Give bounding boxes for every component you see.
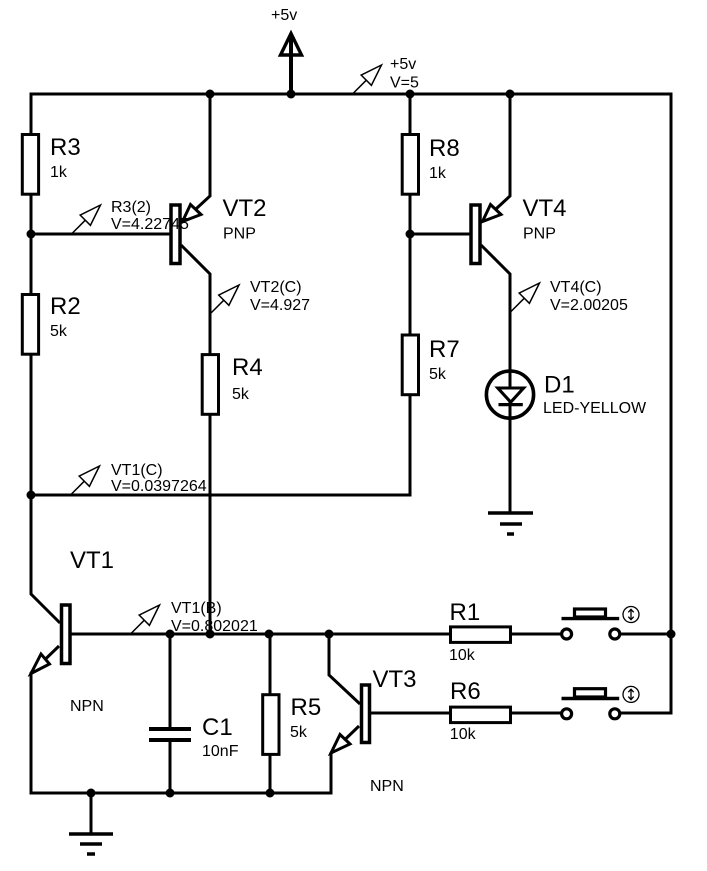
- wire R1 to switch SW1: [511, 633, 562, 636]
- svg-text:VT1(C): VT1(C): [111, 462, 163, 479]
- junction base line VT3: [325, 630, 334, 639]
- resistor R1: [451, 627, 511, 643]
- junction R8 R7 VT4 base: [406, 230, 415, 239]
- svg-text:+5v: +5v: [390, 56, 416, 73]
- wire VT3 emitter: [331, 726, 359, 793]
- junction base line C1: [166, 630, 175, 639]
- svg-text:V=0.802021: V=0.802021: [171, 618, 258, 635]
- svg-text:VT3: VT3: [373, 666, 417, 693]
- svg-text:V=0.0397264: V=0.0397264: [111, 478, 207, 495]
- transistor VT2 base bar: [171, 205, 180, 264]
- wire R6 to switch SW2: [511, 712, 562, 715]
- switch SW2 right terminal: [610, 709, 620, 719]
- svg-text:PNP: PNP: [523, 226, 556, 243]
- junction node R3(2): [27, 230, 36, 239]
- junction base line R5: [265, 630, 274, 639]
- svg-text:C1: C1: [202, 714, 233, 741]
- junction node VT1C left: [27, 491, 36, 500]
- junction top bus at VT4 emitter: [506, 90, 515, 99]
- LED D1 triangle: [498, 388, 524, 402]
- svg-text:V=4.927: V=4.927: [250, 297, 310, 314]
- switch SW2 left terminal: [562, 709, 572, 719]
- svg-text:1k: 1k: [429, 165, 447, 182]
- svg-text:5k: 5k: [290, 724, 308, 741]
- svg-text:VT4(C): VT4(C): [550, 279, 602, 296]
- wire VT2 collector to R4 to base line: [181, 245, 210, 634]
- transistor VT2 emitter arrow: [183, 205, 202, 222]
- wire base line VT1 to R1: [71, 633, 451, 636]
- transistor VT4 emitter arrow: [483, 205, 502, 222]
- resistor R8: [402, 135, 418, 195]
- svg-text:R7: R7: [429, 336, 460, 363]
- wire R8 R7 chain: [409, 94, 412, 495]
- svg-text:R1: R1: [450, 599, 481, 626]
- wire C1 top lead: [169, 634, 172, 729]
- wire VT4 collector to LED D1: [481, 245, 510, 513]
- svg-text:10k: 10k: [450, 726, 477, 743]
- junction right vertical R1: [667, 630, 676, 639]
- svg-text:R8: R8: [429, 135, 460, 162]
- probe VT1(B) arrow: [131, 605, 160, 634]
- junction rail ground: [87, 789, 96, 798]
- svg-text:R3: R3: [50, 134, 81, 161]
- svg-text:10nF: 10nF: [202, 743, 239, 760]
- svg-text:R5: R5: [291, 694, 322, 721]
- resistor R2: [22, 295, 38, 355]
- svg-text:PNP: PNP: [223, 226, 256, 243]
- wire VT4 emitter: [484, 94, 510, 220]
- transistor VT3 emitter arrow: [331, 735, 350, 754]
- LED D1 cathode bar: [499, 403, 523, 406]
- svg-text:LED-YELLOW: LED-YELLOW: [543, 400, 647, 417]
- svg-text:VT1: VT1: [70, 547, 114, 574]
- wire VT2 base: [31, 233, 172, 236]
- svg-text:5k: 5k: [429, 366, 447, 383]
- svg-text:10k: 10k: [449, 647, 476, 664]
- svg-text:VT1(B): VT1(B): [171, 600, 222, 617]
- wire C1 bottom lead: [169, 740, 172, 793]
- wire outer frame: left spine, top bus, right vertical: [31, 94, 671, 713]
- svg-text:5k: 5k: [232, 386, 250, 403]
- svg-text:1k: 1k: [50, 164, 68, 181]
- probe VT4(C) arrow: [511, 283, 540, 312]
- switch SW1 button cap: [575, 609, 606, 617]
- wire VT3 base to R6: [371, 712, 451, 715]
- resistor R7: [402, 335, 418, 395]
- junction rail C1: [166, 789, 175, 798]
- svg-text:+5v: +5v: [271, 7, 297, 24]
- transistor VT1 base bar: [62, 605, 71, 664]
- svg-text:VT2(C): VT2(C): [250, 279, 302, 296]
- junction top bus at VT2 emitter: [206, 90, 215, 99]
- probe VT2(C) arrow: [211, 285, 240, 314]
- switch SW1 right terminal: [610, 629, 620, 639]
- resistor R5: [263, 695, 279, 755]
- LED D1 circle: [486, 371, 533, 418]
- switch SW1 actuator bar: [562, 617, 620, 620]
- wire ground stem under rail: [90, 793, 93, 834]
- transistor VT1 emitter arrow: [31, 654, 50, 674]
- probe R3(2) arrow: [72, 205, 101, 234]
- switch SW2 actuation symbol: [623, 686, 639, 702]
- svg-text:NPN: NPN: [70, 698, 104, 715]
- junction top bus at power: [287, 90, 296, 99]
- svg-text:V=5: V=5: [390, 75, 419, 92]
- svg-text:R3(2): R3(2): [111, 199, 151, 216]
- svg-text:NPN: NPN: [370, 778, 404, 795]
- wire VT2 emitter: [184, 94, 210, 220]
- resistor R3: [22, 135, 38, 195]
- svg-text:V=4.22745: V=4.22745: [111, 216, 189, 233]
- switch SW1 actuation symbol: [623, 607, 639, 623]
- svg-text:V=2.00205: V=2.00205: [550, 297, 628, 314]
- capacitor C1 plates: [149, 729, 191, 740]
- svg-text:5k: 5k: [50, 323, 68, 340]
- svg-text:R6: R6: [450, 678, 481, 705]
- switch SW2 button cap: [575, 689, 606, 697]
- resistor R6: [451, 707, 511, 723]
- probe +5v arrow: [353, 65, 382, 94]
- wire R5 leads: [269, 634, 272, 793]
- svg-text:VT4: VT4: [523, 195, 567, 222]
- ground under LED D1: [488, 513, 533, 534]
- ground under VT1 emitter: [69, 834, 113, 854]
- switch SW2 actuator bar: [562, 697, 620, 700]
- junction top bus at R8: [406, 90, 415, 99]
- probe VT1(C) arrow: [71, 466, 100, 495]
- junction base line R4: [206, 630, 215, 639]
- junction rail R5: [266, 789, 275, 798]
- wire VT3 collector: [329, 634, 360, 704]
- svg-text:R2: R2: [50, 293, 81, 320]
- svg-text:VT2: VT2: [223, 195, 267, 222]
- resistor R4: [202, 355, 218, 415]
- wire VT4 base: [410, 233, 472, 236]
- svg-text:R4: R4: [232, 354, 263, 381]
- transistor VT3 base bar: [362, 685, 370, 743]
- wire node VT1C horizontal: [31, 494, 412, 497]
- transistor VT4 base bar: [471, 205, 480, 264]
- wire VT1 emitter and bottom rail: [31, 646, 333, 793]
- svg-text:D1: D1: [544, 372, 575, 399]
- switch SW1 left terminal: [562, 629, 572, 639]
- power symbol +5v: [281, 34, 302, 95]
- wire switch SW1 to right vertical: [619, 633, 671, 636]
